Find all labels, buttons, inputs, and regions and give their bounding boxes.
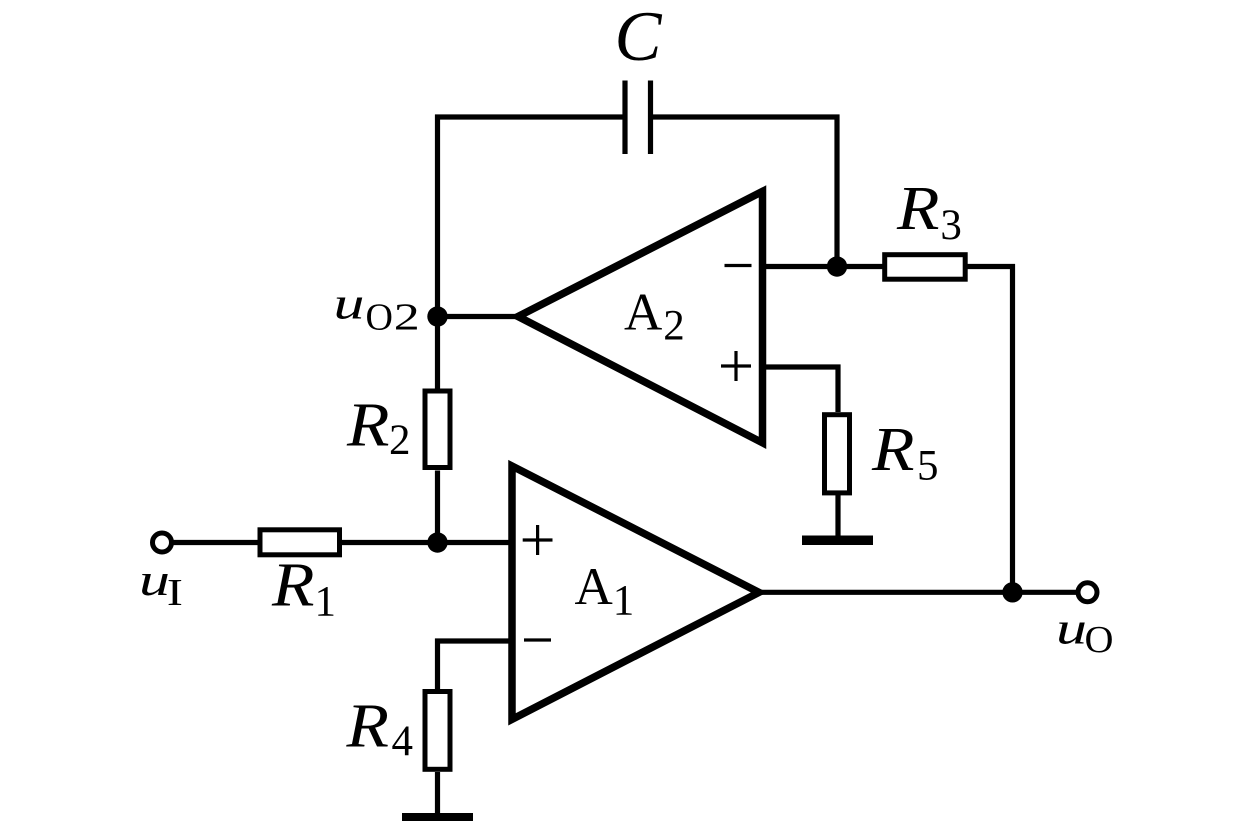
pin + of A1 xyxy=(523,525,553,555)
junction xyxy=(1002,582,1022,602)
capacitor C xyxy=(625,81,651,155)
resistor R4 xyxy=(425,692,450,770)
resistor R2 xyxy=(425,391,450,468)
wire xyxy=(435,772,440,813)
pin + of A2 xyxy=(721,351,751,381)
terminal uI xyxy=(153,533,172,552)
wire xyxy=(342,540,512,545)
wire xyxy=(837,264,884,269)
junction xyxy=(827,256,847,276)
wire xyxy=(172,540,258,545)
wire xyxy=(651,115,840,267)
ground xyxy=(802,536,873,546)
wire xyxy=(763,264,838,269)
junction xyxy=(427,532,447,552)
wire xyxy=(963,264,1015,592)
terminal uO xyxy=(1078,583,1097,602)
wire xyxy=(763,365,841,413)
wire xyxy=(435,317,440,389)
wire xyxy=(757,590,1013,595)
wire xyxy=(835,495,840,536)
wire xyxy=(435,115,625,317)
svg-text:C: C xyxy=(615,0,663,76)
ground xyxy=(402,813,473,821)
wire xyxy=(438,314,517,319)
wire xyxy=(435,471,440,543)
wire xyxy=(435,639,512,690)
node uO2 xyxy=(427,306,447,326)
op-amp A2 xyxy=(518,191,763,442)
resistor R5 xyxy=(825,415,850,493)
op-amp A1 xyxy=(512,466,759,719)
pin - of A2 xyxy=(725,264,752,267)
wire xyxy=(1013,590,1079,595)
resistor R1 xyxy=(260,530,340,555)
pin - of A1 xyxy=(524,638,551,641)
resistor R3 xyxy=(885,255,966,280)
